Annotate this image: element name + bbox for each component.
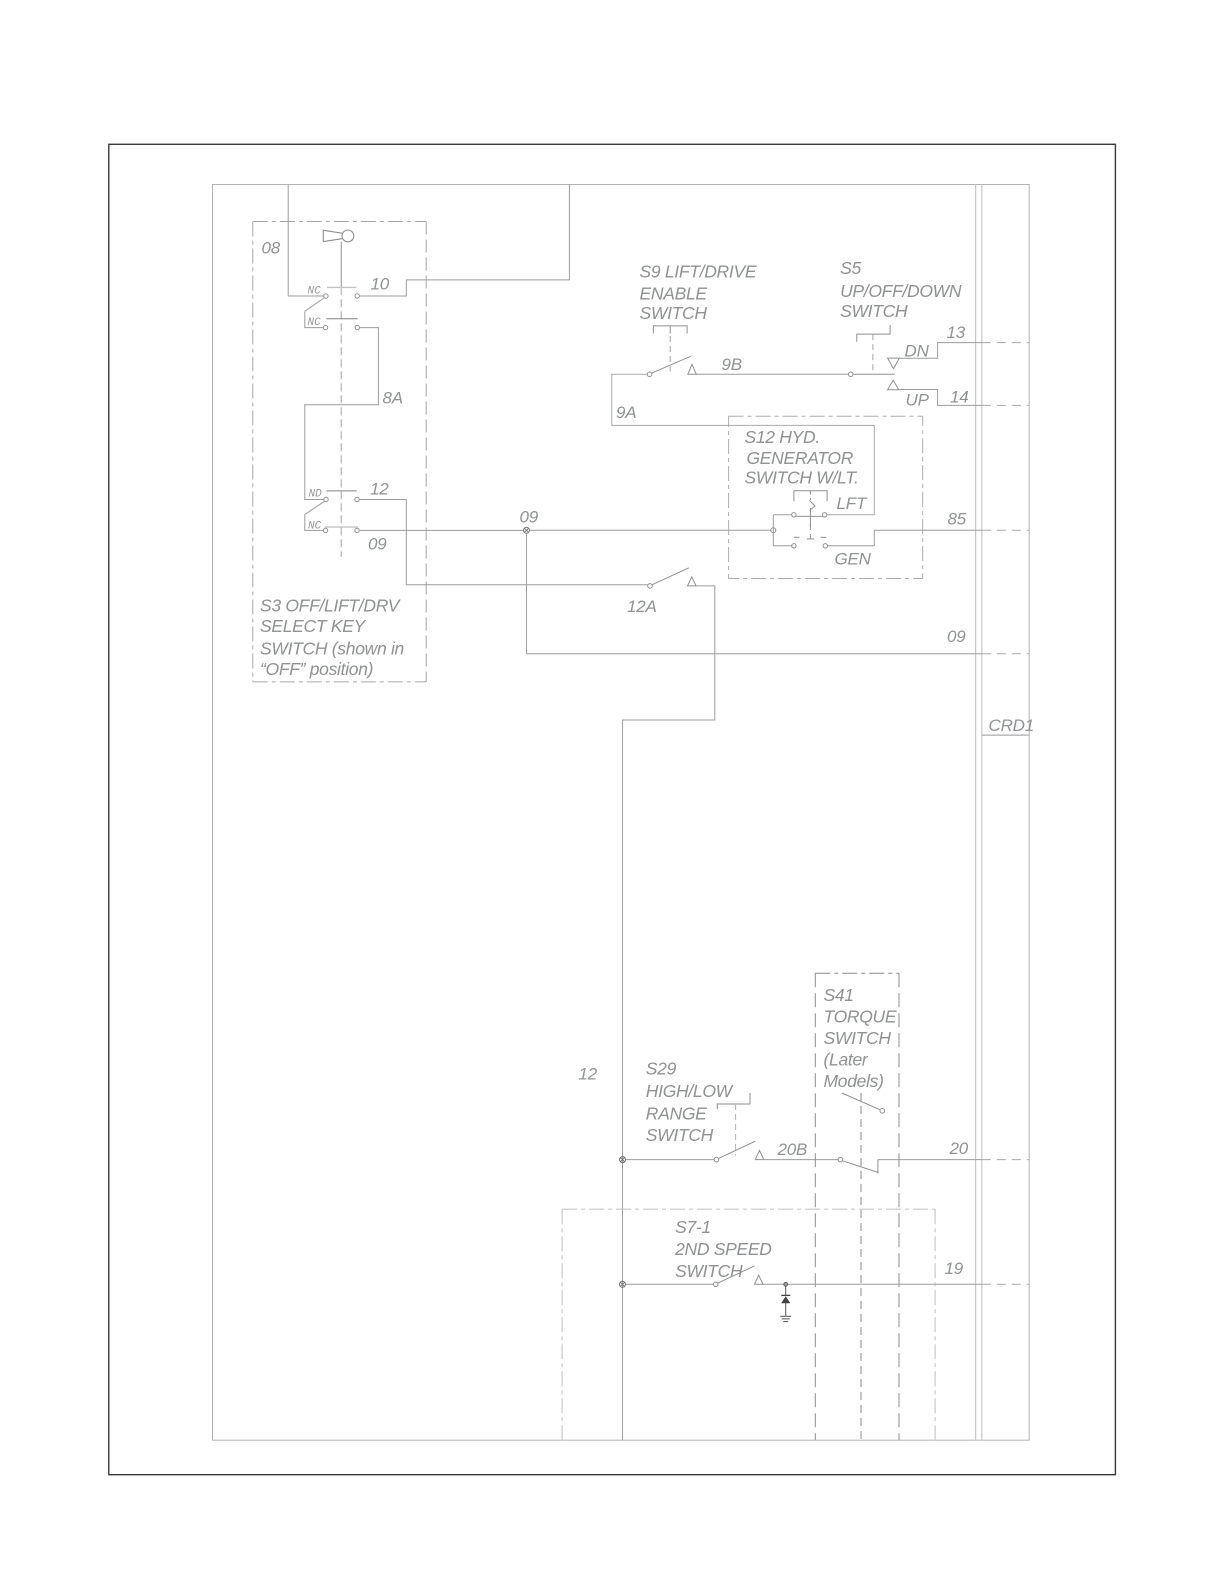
S12 switch name text: [745, 427, 859, 487]
diode CR (to ground): [781, 1286, 790, 1316]
S3 contact ND: [309, 489, 360, 502]
connector CRD1: [982, 716, 1034, 735]
wire 9B: [696, 373, 848, 375]
svg-text:RANGE: RANGE: [646, 1104, 707, 1124]
link ND to NC3: [305, 501, 325, 530]
wire 09 to bus: [527, 653, 982, 655]
S5 switch name text: [840, 258, 962, 321]
S7-1 switch name text: [674, 1217, 772, 1281]
svg-text:09: 09: [520, 508, 539, 527]
bus line right: [981, 185, 983, 1441]
wire 85 to bus: [874, 529, 982, 531]
S5 actuator bracket: [857, 325, 890, 342]
switch 12A blade: [648, 568, 696, 588]
svg-text:SELECT KEY: SELECT KEY: [260, 616, 367, 636]
svg-text:SWITCH W/LT.: SWITCH W/LT.: [745, 467, 859, 487]
wire 20 dashed stub to frame: [982, 1159, 1029, 1161]
svg-text:DN: DN: [905, 342, 930, 361]
svg-text:S7-1: S7-1: [675, 1217, 711, 1237]
wire GEN to 85 riser: [828, 530, 875, 546]
svg-text:“OFF” position): “OFF” position): [260, 659, 373, 679]
S12 LFT contact terminals: [792, 513, 827, 517]
S3 key symbol: [323, 230, 354, 242]
S41 switch name text: [824, 985, 897, 1091]
S5 UP contact triangle: [888, 380, 899, 390]
svg-text:NC: NC: [308, 317, 322, 329]
S41 upper blade: [842, 1093, 885, 1113]
S12 GEN contact terminals: [792, 544, 828, 548]
S3 switch name text: [260, 596, 404, 680]
svg-text:85: 85: [948, 510, 967, 529]
svg-text:09: 09: [947, 627, 966, 646]
S41 series contact: [838, 1157, 878, 1173]
svg-text:12: 12: [579, 1065, 598, 1084]
link NC1 to NC2: [305, 298, 325, 328]
S3 mechanical link (dashed): [340, 287, 342, 557]
wire 20 to bus: [878, 1159, 982, 1161]
wire 09 junction to S12 common: [530, 529, 771, 531]
S12 lower mechanical link: [794, 524, 826, 539]
wire junction 09 drop: [526, 533, 528, 654]
svg-text:GENERATOR: GENERATOR: [747, 448, 854, 468]
wire 10: [359, 185, 569, 297]
junction node 09: [524, 527, 530, 533]
svg-text:Models): Models): [824, 1071, 884, 1091]
bus line left: [975, 185, 977, 1441]
S29 mechanical link (dashed): [735, 1104, 737, 1156]
svg-text:GEN: GEN: [835, 550, 872, 569]
svg-text:20: 20: [949, 1139, 969, 1158]
wire 13: [899, 343, 981, 359]
wire 12: [359, 500, 647, 585]
S29 switch blade: [714, 1141, 764, 1162]
wire 13 dashed stub to frame: [982, 342, 1029, 344]
svg-text:SWITCH (shown in: SWITCH (shown in: [260, 639, 404, 659]
S3 key switch boundary box (dash-dot): [253, 222, 426, 682]
junction node 12/S7-1: [620, 1281, 626, 1287]
svg-text:HIGH/LOW: HIGH/LOW: [646, 1081, 734, 1101]
svg-text:9A: 9A: [616, 403, 636, 422]
wire 20B: [764, 1159, 838, 1161]
inner schematic frame: [213, 185, 1030, 1441]
svg-text:12: 12: [370, 480, 389, 499]
svg-text:TORQUE: TORQUE: [824, 1007, 897, 1027]
svg-text:09: 09: [368, 535, 387, 554]
junction node 12/S29: [620, 1157, 626, 1163]
S29 switch name text: [646, 1059, 734, 1146]
svg-text:19: 19: [945, 1259, 964, 1278]
S12 switch boundary box (dash-dot): [729, 416, 923, 578]
S7-1 switch boundary box (dash-dot): [562, 1209, 935, 1440]
svg-text:UP: UP: [906, 391, 930, 410]
wire 09 dashed stub to frame: [982, 653, 1029, 655]
S5 mechanical link (dashed): [872, 334, 874, 371]
S9 switch blade: [647, 356, 696, 376]
wire 19 to bus: [763, 1283, 982, 1285]
svg-text:S41: S41: [824, 985, 854, 1005]
svg-text:LFT: LFT: [837, 494, 868, 513]
wire 12 junction to S7-1: [626, 1283, 714, 1285]
S9 actuator bracket: [653, 326, 687, 334]
svg-text:S9 LIFT/DRIVE: S9 LIFT/DRIVE: [640, 262, 757, 282]
S41 switch boundary box: [815, 973, 899, 1440]
wire 85 dashed stub to frame: [982, 529, 1029, 531]
wire 19 dashed stub to frame: [982, 1283, 1029, 1285]
svg-text:ENABLE: ENABLE: [640, 283, 708, 303]
wire 8A: [305, 328, 379, 500]
wire 08 drop to contact NC1: [288, 185, 323, 297]
S29 actuator bracket: [717, 1093, 750, 1109]
wire 14: [899, 390, 982, 406]
junction node at diode tap: [784, 1282, 788, 1286]
svg-text:SWITCH: SWITCH: [640, 303, 708, 323]
S12 actuator bracket: [794, 491, 827, 501]
S5 DN contact triangle: [888, 358, 900, 369]
wire 12A down-run: [623, 586, 715, 1440]
S41 mechanical link (dashed): [860, 1093, 862, 1440]
ground symbol: [780, 1316, 791, 1321]
svg-text:9B: 9B: [722, 355, 742, 374]
svg-text:S29: S29: [646, 1059, 677, 1079]
wire 12 junction to S29: [626, 1159, 715, 1161]
svg-text:CRD1: CRD1: [989, 716, 1035, 735]
svg-text:2ND SPEED: 2ND SPEED: [674, 1239, 772, 1259]
svg-text:14: 14: [950, 388, 969, 407]
svg-text:S3 OFF/LIFT/DRV: S3 OFF/LIFT/DRV: [260, 596, 402, 616]
S3 contact NC3: [308, 521, 359, 533]
svg-text:SWITCH: SWITCH: [824, 1028, 892, 1048]
S3 contact NC1: [308, 286, 360, 299]
svg-text:NC: NC: [308, 521, 322, 533]
wire 14 dashed stub to frame: [982, 404, 1029, 406]
svg-text:08: 08: [262, 239, 281, 258]
S9 switch name text: [640, 262, 757, 323]
svg-text:12A: 12A: [627, 597, 657, 616]
wire 9A: [612, 374, 875, 515]
svg-text:13: 13: [947, 323, 966, 342]
S5 common pivot: [848, 372, 895, 377]
svg-text:10: 10: [371, 275, 390, 294]
svg-text:SWITCH: SWITCH: [675, 1261, 743, 1281]
S3 contact NC2: [308, 317, 360, 330]
S3 key shaft: [340, 242, 342, 287]
svg-text:SWITCH: SWITCH: [840, 301, 908, 321]
svg-text:ND: ND: [309, 489, 323, 501]
svg-text:8A: 8A: [383, 389, 403, 408]
page border frame: [109, 144, 1116, 1474]
svg-text:20B: 20B: [777, 1140, 808, 1159]
svg-text:UP/OFF/DOWN: UP/OFF/DOWN: [840, 281, 962, 301]
S7-1 switch blade: [713, 1266, 763, 1287]
svg-text:SWITCH: SWITCH: [646, 1125, 714, 1145]
svg-text:S12 HYD.: S12 HYD.: [745, 427, 820, 447]
svg-text:S5: S5: [840, 258, 861, 278]
wire 09 from NC3: [359, 529, 523, 531]
S12 toggle lever: [796, 491, 823, 527]
S9 mechanical link (dashed): [669, 336, 671, 372]
S12 common terminal: [771, 515, 792, 546]
svg-text:NC: NC: [308, 286, 322, 298]
svg-text:(Later: (Later: [824, 1050, 869, 1070]
